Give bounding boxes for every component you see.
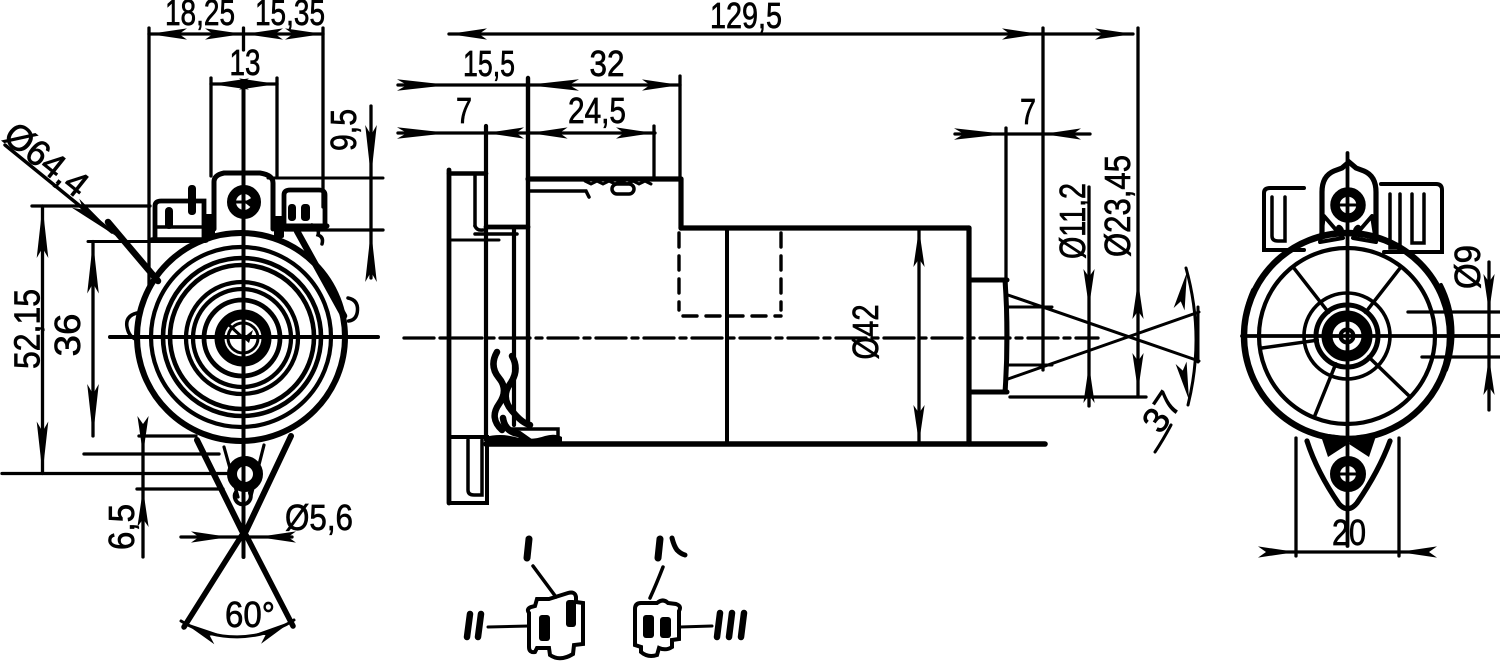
arrow 20 right: [1399, 546, 1437, 557]
arrow O42 top: [913, 229, 924, 267]
ticks II: [467, 614, 470, 637]
plate line y240: [449, 239, 499, 242]
ext line x323: [321, 28, 324, 207]
arrow 24,5 right: [616, 127, 654, 138]
svg-text:60°: 60°: [225, 594, 275, 635]
arrow 9,5 bottom: [365, 230, 377, 282]
dashed cavity left: [677, 233, 680, 310]
arrow 15,5/32 shared: [527, 79, 579, 91]
arrow 52,15 top: [37, 206, 49, 258]
left tab top slot: [188, 185, 196, 215]
connector A slot 1: [539, 615, 550, 641]
svg-text:15,35: 15,35: [255, 0, 325, 33]
seal squiggle 1: [493, 352, 504, 430]
dim 7/24,5 line: [398, 131, 655, 134]
cone right edge: [246, 535, 293, 626]
svg-text:32: 32: [590, 43, 625, 84]
svg-text:Ø5,6: Ø5,6: [285, 497, 353, 538]
37 arc: [1186, 268, 1196, 405]
dim 20 ext left: [1294, 438, 1297, 556]
arrow O23,45 top: [1132, 281, 1143, 319]
flange right edge: [526, 78, 530, 425]
foot outline: [449, 437, 487, 503]
arrow 20 left: [1258, 546, 1296, 557]
arrow 9,5 top: [365, 125, 377, 177]
hub inner circle: [228, 323, 258, 353]
bracket bottom left line / 36 top ext: [88, 240, 205, 243]
left bracket: [1264, 188, 1304, 250]
spoke 316: [1369, 357, 1409, 396]
bottom ear: [1307, 441, 1390, 509]
dim O5,6 line: [181, 535, 292, 538]
right bracket: [1381, 184, 1442, 252]
bottom bowtie right: [1349, 433, 1377, 457]
flange step: [486, 225, 528, 230]
bottom ear hole: [1335, 461, 1361, 487]
crosshair v: [1346, 153, 1350, 546]
left tab inner slot: [165, 207, 173, 229]
dim 129,5 line: [449, 32, 1133, 35]
tab hole lower arc: [235, 492, 251, 504]
ext y454: [84, 452, 219, 455]
arrow 7r right: [1043, 128, 1081, 139]
right tab squiggle: [312, 225, 323, 244]
gearbox right edge: [678, 179, 683, 228]
fan circle r30: [1316, 305, 1378, 367]
arrow O5,6 right: [258, 531, 296, 542]
plate groove left: [473, 176, 477, 226]
connector B outline: [635, 601, 680, 657]
spoke 188: [1262, 340, 1317, 348]
9,5 ext bottom: [285, 228, 383, 231]
arrow O9 bottom: [1483, 357, 1494, 395]
gear circle r57: [186, 282, 298, 394]
arrow 7 left: [397, 127, 449, 139]
seal hook: [503, 418, 529, 441]
right tab: [284, 190, 325, 225]
gearbox bottom teeth: [500, 440, 525, 444]
svg-text:129,5: 129,5: [710, 0, 782, 36]
svg-text:Ø11,2: Ø11,2: [1052, 183, 1093, 259]
dim 6,5 line: [141, 426, 144, 557]
arrow 52,15 bottom: [37, 422, 49, 474]
bottom bowtie left: [1320, 433, 1348, 457]
svg-text:Ø23,45: Ø23,45: [1097, 155, 1138, 257]
arrow 129,5 far right: [1095, 28, 1133, 39]
dim 52,15 line: [41, 206, 44, 474]
top ear hole tick: [1333, 204, 1364, 207]
plate top: [449, 171, 486, 176]
svg-text:20: 20: [1332, 512, 1366, 553]
left bracket slot: [1272, 197, 1285, 241]
arrow 15,5 left: [397, 79, 449, 91]
svg-text:15,5: 15,5: [463, 43, 515, 84]
arrow 129,5 left: [449, 28, 487, 39]
dashed cavity bottom: [683, 314, 781, 317]
spoke 248: [1315, 364, 1336, 416]
motor end cap: [966, 228, 971, 444]
svg-text:Ø9: Ø9: [1447, 245, 1488, 289]
boss bottom: [969, 390, 1007, 395]
left tab shelf line: [155, 225, 204, 229]
dome ring hole: [232, 190, 257, 215]
svg-text:18,25: 18,25: [165, 0, 235, 33]
gearbox top slot: [612, 184, 634, 194]
connector A slot 2: [566, 600, 576, 627]
plate line y234: [475, 232, 517, 236]
outer lump arc 2: [1441, 285, 1453, 370]
ext line x273: [275, 78, 278, 176]
svg-text:6,5: 6,5: [101, 504, 142, 550]
svg-text:24,5: 24,5: [568, 90, 626, 131]
dome: [214, 173, 273, 229]
spoke 128: [1294, 268, 1329, 312]
mystery line y397: [1010, 395, 1146, 398]
ext x654: [652, 126, 655, 178]
leader B: [650, 567, 663, 598]
arrow 13 right: [239, 78, 277, 89]
bracket left tab: [155, 201, 204, 238]
ring notch: [244, 196, 255, 209]
svg-text:13: 13: [230, 42, 261, 83]
hub ring: [1327, 316, 1367, 356]
gearbox top: [528, 176, 681, 181]
dim 20 ext right: [1397, 438, 1400, 556]
dim 7 right line: [955, 132, 1090, 135]
tab inner line left: [224, 447, 238, 497]
plate left edge: [447, 170, 452, 503]
arrow 129,5 right: [1002, 28, 1040, 39]
top bowtie right: [1353, 216, 1376, 242]
37 arc arrow top: [1174, 271, 1193, 310]
right bracket slot b: [1412, 194, 1424, 243]
arrow 6,5 top: [137, 416, 148, 454]
dome ring tick: [229, 201, 259, 204]
hub radial line: [228, 324, 243, 338]
tick I: [527, 539, 529, 558]
gear circle r73: [170, 265, 314, 409]
arrow O42 bottom: [913, 405, 924, 443]
arrow O11,2 bottom: [1083, 365, 1094, 403]
dim 9,5 line: [369, 106, 372, 278]
dim 20 line: [1272, 550, 1426, 553]
leader O64.4: [5, 145, 112, 232]
gearbox second top line: [528, 191, 589, 197]
60 deg arc: [181, 620, 294, 637]
arrow O11,2 top: [1083, 269, 1094, 307]
right side lug: [348, 298, 358, 321]
ext x680: [678, 76, 681, 178]
right bracket slot a: [1390, 194, 1400, 248]
seal squiggle 2: [506, 356, 530, 425]
outer lump arc 1: [1244, 290, 1253, 368]
cone left edge: [184, 535, 242, 627]
arrow 36 top: [87, 242, 99, 294]
outer housing circle: [137, 233, 345, 441]
left tab bottom edge: [152, 237, 206, 243]
center axis dash-dot: [404, 336, 1098, 339]
leader III: [680, 626, 712, 627]
ext y436: [139, 434, 196, 437]
arrow 32 right: [642, 79, 680, 90]
arrow 7 right: [486, 127, 524, 138]
dim O9 ext top: [1408, 310, 1500, 313]
tick I prime hook: [672, 538, 685, 555]
plate groove bottom: [475, 226, 483, 230]
fan circle r43: [1304, 293, 1390, 379]
top ear: [1322, 162, 1376, 236]
boss right edge: [1005, 280, 1007, 392]
right tab slot a: [288, 204, 296, 221]
crosshair h: [1242, 334, 1500, 338]
left side lug: [127, 313, 138, 340]
foot slot: [468, 440, 482, 495]
gearbox top zigzag: [585, 181, 651, 184]
ext y206: [32, 204, 150, 207]
60 arc arrow left: [180, 617, 219, 644]
tab upper right edge: [246, 436, 291, 531]
gear circle r80: [163, 258, 321, 416]
dim 15,5/32 line: [398, 83, 680, 86]
plate right edge / 7 ext: [484, 126, 488, 440]
shaft top line: [1007, 306, 1052, 309]
gap blob left: [204, 214, 215, 238]
boss top: [969, 278, 1007, 283]
tab upper left edge: [197, 440, 242, 531]
dim 36 line: [91, 242, 94, 437]
arrow 6,5 bottom: [137, 489, 148, 527]
crosshair horizontal: [110, 335, 378, 339]
gearbox lip line: [505, 429, 558, 440]
dim 18,25 / 15,35 line: [149, 32, 323, 35]
diag flat line 1: [1008, 295, 1199, 361]
arrow 36 bottom: [87, 384, 99, 436]
ext y489: [137, 487, 223, 490]
dim O23,45 line: [1136, 28, 1139, 397]
crosshair vertical: [242, 81, 246, 557]
gearbox bottom thick blob: [485, 435, 562, 446]
ext y474 long: [2, 472, 235, 475]
rim circle: [1259, 248, 1435, 424]
ext x1043: [1041, 28, 1044, 370]
motor top: [681, 225, 969, 230]
connector B slot 2: [660, 617, 671, 638]
chamfer upper-left: [108, 222, 158, 281]
dim O11,2 line: [1087, 187, 1090, 406]
flange inner edge: [512, 227, 516, 425]
top bowtie left: [1320, 216, 1343, 242]
tick I prime: [658, 539, 660, 558]
gear circle r50: [193, 289, 291, 387]
diag end bar: [1197, 307, 1200, 362]
ext line x243 top: [242, 28, 245, 50]
37 arc tail: [1155, 425, 1171, 452]
bracket top right line / 9,5 ext top: [268, 177, 383, 180]
37 arc arrow bottom: [1176, 362, 1195, 401]
connector A outline: [528, 593, 583, 659]
gap blob right: [274, 216, 284, 238]
motor joint line: [725, 228, 729, 443]
shaft bottom line: [1007, 364, 1052, 367]
chamfer upper-right: [297, 231, 344, 316]
hub inner circle: [1341, 330, 1354, 343]
rim circle: [151, 247, 331, 427]
svg-text:52,15: 52,15: [7, 289, 48, 369]
arrow 24,5 left: [530, 127, 568, 138]
svg-text:36: 36: [47, 314, 88, 357]
right tab bottom edge: [283, 224, 327, 229]
ticks III: [717, 613, 720, 637]
top ear hole: [1335, 192, 1361, 218]
gear circle r38: [204, 300, 280, 376]
outer housing: [1244, 233, 1450, 439]
arrow 7r left: [954, 128, 1006, 140]
svg-text:7: 7: [1020, 91, 1036, 132]
ext line x149: [147, 28, 150, 289]
ext x1006: [1004, 128, 1007, 392]
leader O64.4 arrow: [72, 199, 120, 241]
bottom ear hole tick: [1333, 473, 1363, 476]
tab inner line right: [251, 445, 264, 496]
tab hole ring: [232, 461, 258, 487]
right tab slot b: [301, 204, 310, 221]
leader II: [488, 626, 529, 627]
60 arc arrow right: [256, 616, 295, 644]
dim O42 line: [917, 230, 920, 442]
arrow 18,25 right: [205, 28, 243, 39]
dim O9 line: [1487, 262, 1490, 410]
ext line x214: [209, 78, 212, 176]
gearbox bottom line: [486, 441, 1045, 447]
arrow 13 left: [211, 78, 249, 89]
svg-text:Ø42: Ø42: [845, 305, 886, 360]
dim O9 ext bottom: [1422, 355, 1500, 358]
diag flat line 2: [1008, 312, 1199, 379]
dim 13 line: [211, 82, 277, 85]
connector B slot 1: [643, 615, 654, 638]
arrow O5,6 left: [191, 531, 229, 542]
arrow O23,45 bottom: [1132, 353, 1143, 391]
dashed cavity right: [779, 233, 782, 310]
spoke 52: [1366, 268, 1401, 312]
arrow 15,35 left: [245, 28, 283, 39]
arrow 18,25 left: [149, 28, 187, 39]
leader I: [533, 566, 556, 597]
svg-text:9,5: 9,5: [323, 109, 364, 151]
bearing ring: [220, 315, 267, 362]
svg-text:7: 7: [456, 90, 472, 131]
arrow O9 top: [1483, 274, 1494, 312]
hub wedge: [243, 330, 253, 343]
arrow 15,35 right: [285, 28, 323, 39]
